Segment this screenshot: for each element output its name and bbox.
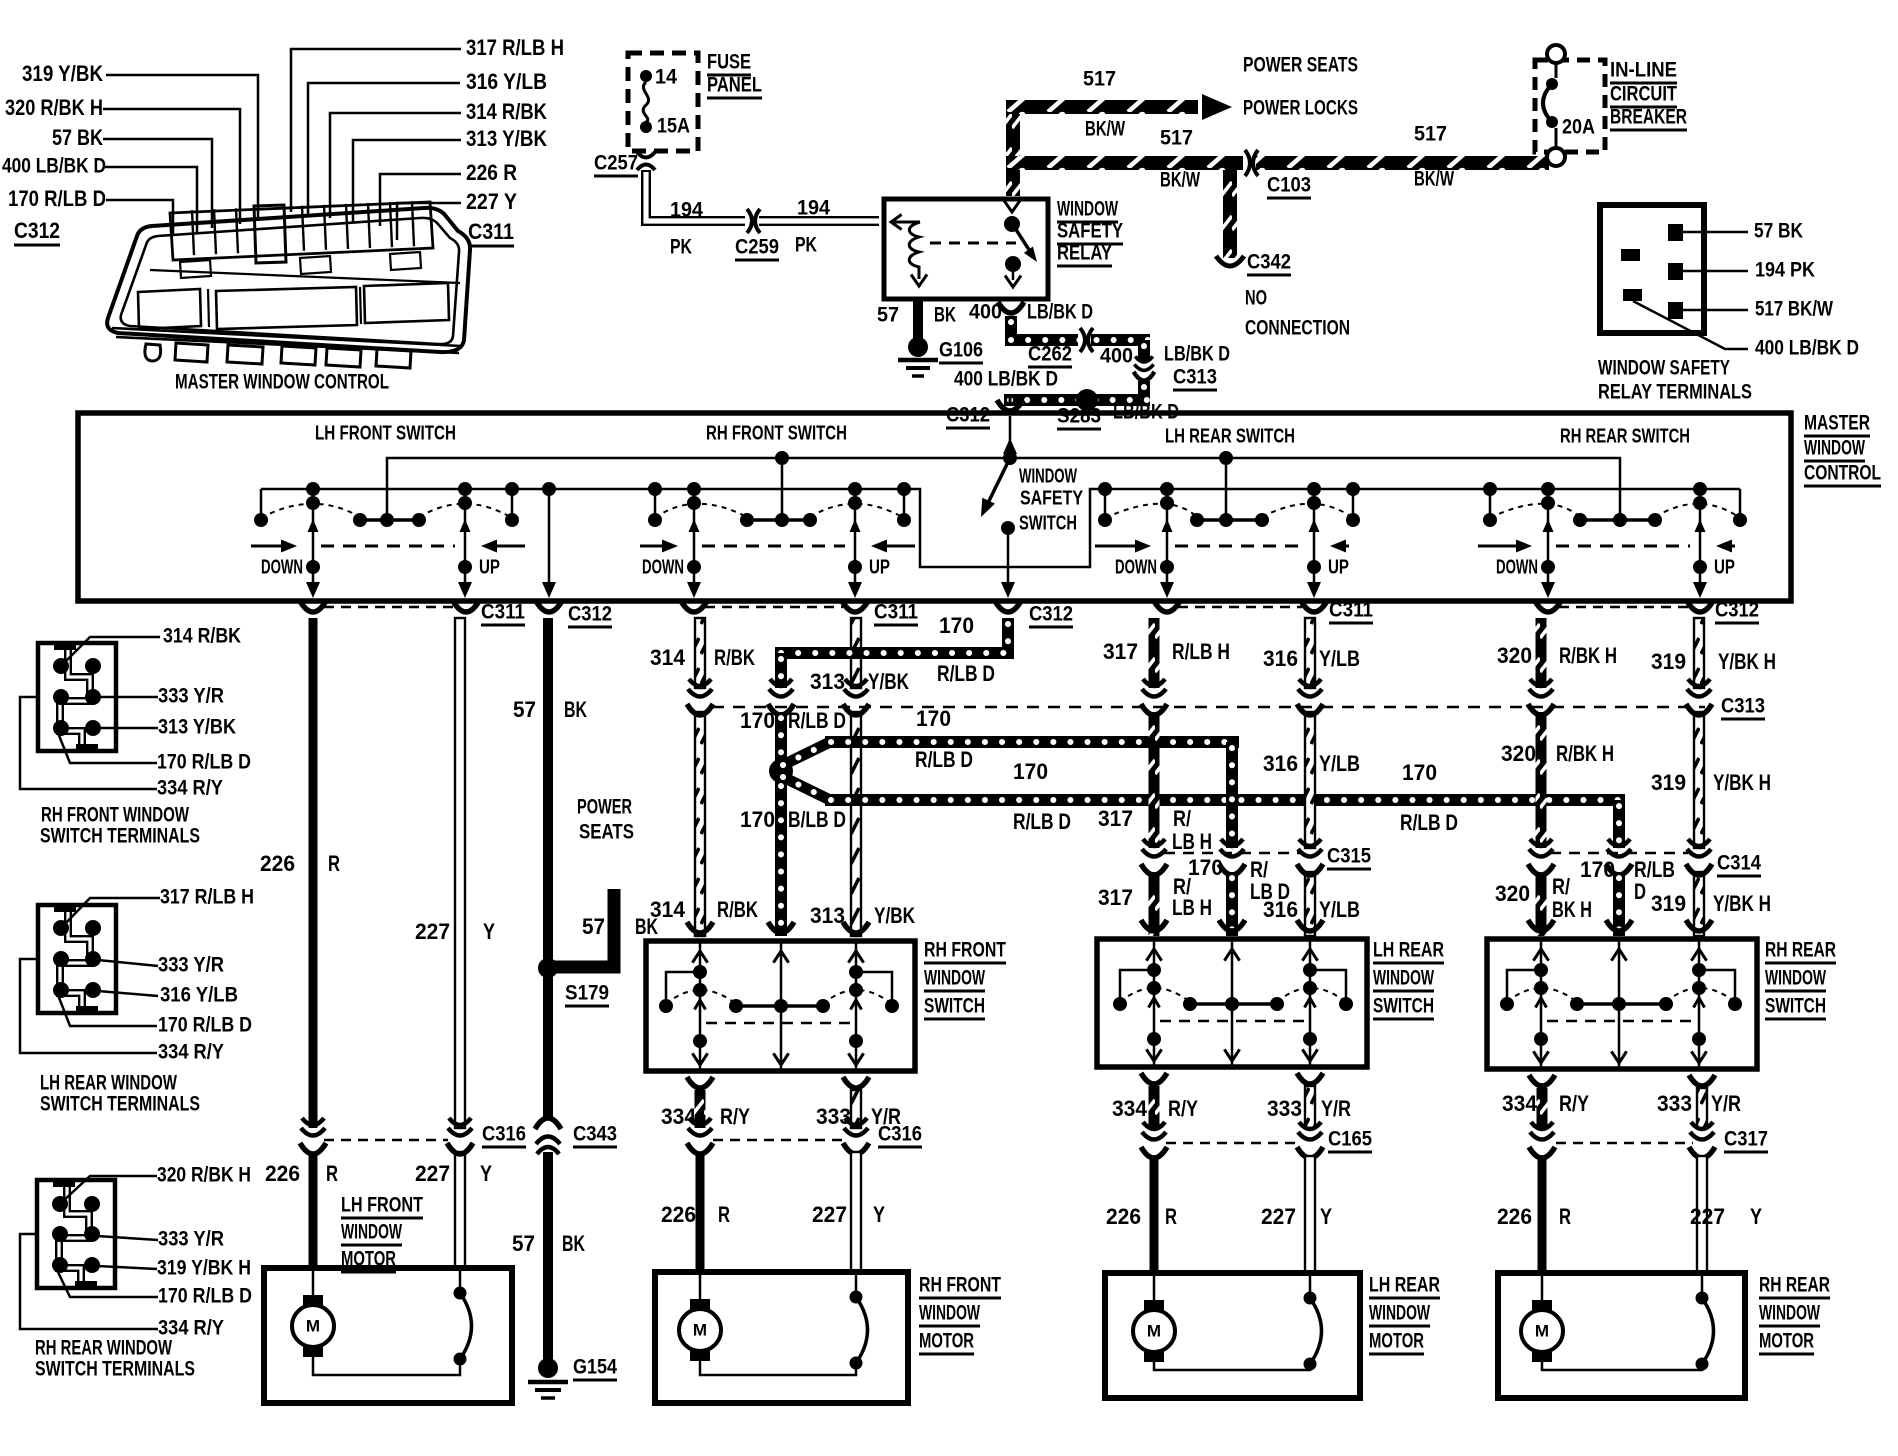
forks above RH front switch box <box>687 922 713 933</box>
svg-text:227: 227 <box>1690 1204 1725 1229</box>
wire 227 Y LH rear <box>1305 1156 1315 1273</box>
svg-text:M: M <box>1147 1321 1161 1340</box>
svg-text:194 PK: 194 PK <box>1755 258 1815 282</box>
svg-text:WINDOW: WINDOW <box>919 1301 981 1325</box>
svg-text:317 R/LB H: 317 R/LB H <box>160 885 254 909</box>
svg-text:170 R/LB D: 170 R/LB D <box>158 1013 252 1037</box>
wire 334 R/Y RH front <box>695 1090 706 1128</box>
svg-text:UP: UP <box>869 556 890 578</box>
wire 226 R RH front <box>696 1152 705 1272</box>
fuse 15A terminal <box>640 121 652 133</box>
svg-text:B/LB D: B/LB D <box>788 807 846 832</box>
wire 170 down to splice <box>775 712 787 762</box>
svg-text:SWITCH TERMINALS: SWITCH TERMINALS <box>40 824 200 848</box>
svg-text:SWITCH TERMINALS: SWITCH TERMINALS <box>40 1092 200 1116</box>
fork above master box <box>997 400 1023 411</box>
wire 57 BK to G106 <box>913 299 923 341</box>
wire 57 BK main <box>543 618 553 1120</box>
break C313 on 320 <box>1529 679 1553 697</box>
svg-text:RELAY TERMINALS: RELAY TERMINALS <box>1598 380 1752 404</box>
svg-text:57: 57 <box>877 303 899 327</box>
svg-text:R/LB D: R/LB D <box>937 661 995 686</box>
svg-text:C312: C312 <box>1029 602 1073 626</box>
break C313 on 319 <box>1687 679 1711 697</box>
wire 333 Y/R LH rear <box>1305 1086 1315 1128</box>
svg-text:400 LB/BK D: 400 LB/BK D <box>1755 336 1859 360</box>
wire 170 upper branch diagonal <box>783 743 828 765</box>
svg-text:PANEL: PANEL <box>707 73 762 97</box>
svg-text:UP: UP <box>1714 556 1735 578</box>
svg-text:R/BK: R/BK <box>714 645 756 670</box>
forks above LH rear switch box <box>1141 920 1167 931</box>
svg-text:317: 317 <box>1098 806 1133 831</box>
feed line across switches <box>387 458 1620 520</box>
dashed C316 link <box>324 1139 448 1142</box>
wire 319 mid <box>1694 712 1704 848</box>
svg-text:LH REAR: LH REAR <box>1373 938 1444 962</box>
svg-text:227: 227 <box>415 919 450 944</box>
wire 227 Y RH front <box>851 1152 861 1272</box>
svg-text:333: 333 <box>816 1104 851 1129</box>
svg-text:CONTROL: CONTROL <box>1804 461 1881 485</box>
svg-text:334 R/Y: 334 R/Y <box>157 776 223 800</box>
RH front window switch terminals <box>38 643 116 751</box>
forks below RH front switch <box>687 1077 713 1088</box>
svg-text:316: 316 <box>1263 897 1298 922</box>
svg-text:C313: C313 <box>1721 694 1765 718</box>
break C316-2 on 334 <box>688 1118 712 1136</box>
svg-text:57: 57 <box>513 697 536 722</box>
svg-text:333: 333 <box>1267 1096 1302 1121</box>
RH front switch unit <box>648 482 662 496</box>
dashed links below master box <box>324 606 454 609</box>
svg-text:DOWN: DOWN <box>1496 556 1538 578</box>
wire 227 Y LH front lower <box>455 1152 465 1268</box>
break C165 on 334 <box>1142 1122 1166 1140</box>
svg-text:C311: C311 <box>874 600 918 624</box>
svg-text:C316: C316 <box>482 1122 526 1146</box>
svg-text:333 Y/R: 333 Y/R <box>158 1227 224 1251</box>
svg-text:170: 170 <box>939 613 974 638</box>
break C316 on 226 <box>301 1118 325 1136</box>
svg-text:194: 194 <box>797 196 830 220</box>
svg-text:317: 317 <box>1103 639 1138 664</box>
svg-text:317 R/LB H: 317 R/LB H <box>466 35 564 60</box>
wire 317 lower <box>1149 872 1160 936</box>
svg-text:319: 319 <box>1651 891 1686 916</box>
wire 226 R LH front lower <box>309 1152 318 1268</box>
svg-text:WINDOW: WINDOW <box>1019 465 1078 487</box>
svg-text:DOWN: DOWN <box>1115 556 1157 578</box>
break C315 on 170 <box>1220 839 1244 857</box>
terminal pins left <box>1621 249 1640 261</box>
svg-text:POWER: POWER <box>577 795 632 819</box>
svg-text:SAFETY: SAFETY <box>1020 487 1083 509</box>
dashed C316-2 <box>713 1139 845 1142</box>
svg-text:R/LB D: R/LB D <box>1013 809 1071 834</box>
svg-text:227: 227 <box>415 1161 450 1186</box>
svg-text:226: 226 <box>661 1202 696 1227</box>
svg-text:C311: C311 <box>1329 598 1373 622</box>
wire 170 below splice <box>775 780 787 936</box>
wire 170 branch down at 1233 <box>1226 742 1238 848</box>
svg-text:CONNECTION: CONNECTION <box>1245 316 1350 340</box>
svg-text:SWITCH: SWITCH <box>924 994 985 1018</box>
svg-text:170: 170 <box>1402 760 1437 785</box>
connector C259 break <box>745 212 759 230</box>
svg-text:R/BK H: R/BK H <box>1556 741 1614 766</box>
in-line circuit breaker box <box>1535 60 1605 152</box>
relay coil arrow <box>911 275 927 287</box>
svg-text:IN-LINE: IN-LINE <box>1610 58 1677 82</box>
svg-text:170 R/LB D: 170 R/LB D <box>8 186 106 211</box>
wire 170 into LH rear switch <box>1226 872 1238 936</box>
svg-text:226: 226 <box>1497 1204 1532 1229</box>
RH front window switch box <box>646 941 915 1071</box>
svg-text:R/BK H: R/BK H <box>1559 643 1617 668</box>
svg-text:Y/BK H: Y/BK H <box>1718 649 1776 674</box>
svg-text:R: R <box>1559 1204 1571 1229</box>
svg-text:C314: C314 <box>1717 851 1761 875</box>
wire 319 lower <box>1694 872 1704 936</box>
svg-text:MOTOR: MOTOR <box>341 1247 396 1271</box>
wire 517 vertical <box>1006 112 1020 196</box>
svg-text:314 R/BK: 314 R/BK <box>466 99 548 124</box>
svg-text:15A: 15A <box>657 114 690 138</box>
svg-text:C313: C313 <box>1173 365 1217 389</box>
svg-text:C316: C316 <box>878 1122 922 1146</box>
svg-text:Y/BK: Y/BK <box>874 903 916 928</box>
svg-text:320: 320 <box>1495 881 1530 906</box>
svg-text:BK H: BK H <box>1552 897 1592 922</box>
relay coil feed arrow <box>892 221 920 224</box>
svg-text:319: 319 <box>1651 770 1686 795</box>
wire 226 R RH rear <box>1538 1156 1547 1273</box>
breaker top terminal <box>1547 45 1565 63</box>
svg-text:WINDOW: WINDOW <box>1373 966 1435 990</box>
wire 313 Y/BK lower <box>851 712 861 936</box>
svg-text:400 LB/BK D: 400 LB/BK D <box>954 367 1058 391</box>
svg-text:MOTOR: MOTOR <box>1759 1329 1814 1353</box>
svg-text:S283: S283 <box>1057 404 1101 428</box>
svg-text:226 R: 226 R <box>466 160 517 185</box>
svg-text:NO: NO <box>1245 286 1267 310</box>
svg-text:400 LB/BK D: 400 LB/BK D <box>2 154 106 178</box>
svg-text:WINDOW: WINDOW <box>1765 966 1827 990</box>
svg-text:R/Y: R/Y <box>1168 1096 1198 1121</box>
wire 400 below C313 <box>1138 381 1150 394</box>
forks below RH rear switch <box>1529 1075 1555 1086</box>
svg-text:DOWN: DOWN <box>261 556 303 578</box>
svg-text:170: 170 <box>740 807 775 832</box>
svg-text:POWER SEATS: POWER SEATS <box>1243 53 1358 77</box>
svg-text:57 BK: 57 BK <box>1754 219 1803 243</box>
break C316-2 on 333 <box>844 1118 868 1136</box>
svg-text:R: R <box>328 851 340 876</box>
forks above RH rear switch box <box>1528 920 1554 931</box>
svg-text:170 R/LB D: 170 R/LB D <box>157 750 251 774</box>
break C313 on 313 <box>844 679 868 697</box>
svg-text:170 R/LB D: 170 R/LB D <box>158 1284 252 1308</box>
dashed C317 <box>1556 1142 1693 1145</box>
svg-text:C165: C165 <box>1328 1127 1372 1151</box>
break C314 on 170 <box>1607 839 1631 857</box>
svg-text:334 R/Y: 334 R/Y <box>158 1316 224 1340</box>
wire 170 branch down at 1617 <box>1613 800 1625 848</box>
svg-text:57 BK: 57 BK <box>52 125 104 150</box>
svg-text:Y/LB: Y/LB <box>1319 897 1360 922</box>
svg-text:517: 517 <box>1083 67 1116 91</box>
connector C103 break <box>1243 153 1256 173</box>
svg-text:C103: C103 <box>1267 173 1311 197</box>
RH rear switch unit <box>1483 482 1497 496</box>
connector C262 break <box>1078 331 1091 349</box>
LH rear switch unit <box>1098 482 1112 496</box>
power seats branch elbow <box>548 889 614 967</box>
master window control illustration <box>107 208 470 352</box>
svg-text:C315: C315 <box>1327 844 1371 868</box>
break on 170 <box>769 679 793 697</box>
wire 333 Y/R RH rear <box>1697 1088 1707 1128</box>
svg-text:M: M <box>306 1316 320 1335</box>
LH rear window switch terminals <box>38 905 116 1013</box>
breaker bottom terminal <box>1547 148 1565 166</box>
wire 170 into RH rear switch <box>1613 872 1625 936</box>
dashed C165 <box>1166 1142 1298 1145</box>
svg-text:C311: C311 <box>468 219 514 244</box>
window safety relay terminals box <box>1600 205 1704 333</box>
svg-text:SWITCH: SWITCH <box>1765 994 1826 1018</box>
break C313 on 314 <box>688 679 712 697</box>
svg-text:517 BK/W: 517 BK/W <box>1755 297 1834 321</box>
break C343 on 57 <box>535 1118 561 1129</box>
wire 314 R/BK lower <box>695 712 705 936</box>
wire 517 C342 stub <box>1223 170 1237 258</box>
svg-text:320: 320 <box>1501 741 1536 766</box>
svg-text:LB/BK D: LB/BK D <box>1027 300 1093 324</box>
svg-text:D: D <box>1634 879 1646 904</box>
svg-text:334: 334 <box>1112 1096 1147 1121</box>
svg-text:517: 517 <box>1160 126 1193 150</box>
svg-text:RH REAR SWITCH: RH REAR SWITCH <box>1560 425 1690 447</box>
svg-text:C257: C257 <box>594 151 638 175</box>
svg-text:C343: C343 <box>573 1122 617 1146</box>
svg-text:319 Y/BK H: 319 Y/BK H <box>157 1256 251 1280</box>
svg-text:226: 226 <box>260 851 295 876</box>
svg-text:226: 226 <box>1106 1204 1141 1229</box>
svg-text:333: 333 <box>1657 1091 1692 1116</box>
window safety switch <box>1009 416 1012 458</box>
RH front window motor box <box>655 1272 908 1403</box>
wire 320 R/BK H upper <box>1536 618 1547 688</box>
wire 316 mid <box>1305 712 1315 848</box>
svg-text:C312: C312 <box>14 218 60 243</box>
svg-text:R/: R/ <box>1173 806 1192 831</box>
svg-text:333 Y/R: 333 Y/R <box>158 684 224 708</box>
svg-text:319 Y/BK: 319 Y/BK <box>22 61 104 86</box>
57 BK feed in box <box>542 482 556 496</box>
svg-text:R/Y: R/Y <box>720 1104 750 1129</box>
wire 170 lower branch diagonal <box>783 777 828 799</box>
svg-text:LH FRONT SWITCH: LH FRONT SWITCH <box>315 422 456 444</box>
svg-text:SEATS: SEATS <box>579 820 634 844</box>
svg-text:CIRCUIT: CIRCUIT <box>1610 82 1677 106</box>
svg-text:FUSE: FUSE <box>707 50 751 74</box>
relay contact dots <box>1004 216 1020 232</box>
svg-text:C342: C342 <box>1247 250 1291 274</box>
svg-text:227: 227 <box>812 1202 847 1227</box>
wire 517 power feed run <box>1006 100 1198 114</box>
svg-text:R: R <box>326 1161 338 1186</box>
feed drop RH front <box>781 458 784 520</box>
relay output stem <box>1012 268 1015 280</box>
splice S179 <box>538 958 558 978</box>
svg-text:14: 14 <box>655 65 677 89</box>
wire 314 R/BK upper <box>695 618 705 688</box>
wire 316 Y/LB upper <box>1305 618 1315 688</box>
breaker element <box>1555 63 1558 78</box>
svg-text:C311: C311 <box>481 600 525 624</box>
RH rear window switch terminals <box>37 1180 115 1288</box>
wire 400 to S283 <box>1004 394 1150 406</box>
svg-text:Y: Y <box>480 1161 492 1186</box>
svg-text:MASTER: MASTER <box>1804 411 1870 435</box>
svg-text:RELAY: RELAY <box>1057 241 1112 265</box>
svg-text:LB/BK D: LB/BK D <box>1164 342 1230 366</box>
svg-text:333 Y/R: 333 Y/R <box>158 953 224 977</box>
svg-text:517: 517 <box>1414 122 1447 146</box>
svg-text:G154: G154 <box>573 1355 617 1379</box>
fork below relay <box>998 302 1024 313</box>
leader lines - right labels <box>291 49 461 212</box>
svg-text:Y: Y <box>873 1202 885 1227</box>
svg-text:SAFETY: SAFETY <box>1057 219 1123 243</box>
break C314 on 319 <box>1687 839 1711 857</box>
connector C313 break <box>1134 356 1153 370</box>
wire 317 R/LB H upper <box>1149 618 1160 688</box>
svg-text:BK/W: BK/W <box>1414 167 1455 191</box>
dashed connector line C313 <box>712 706 1705 709</box>
svg-text:C259: C259 <box>735 235 779 259</box>
master window control box <box>78 413 1791 601</box>
break C317 on 334 <box>1530 1122 1554 1140</box>
svg-text:Y/BK H: Y/BK H <box>1713 770 1771 795</box>
svg-text:314: 314 <box>650 897 685 922</box>
wire 170 safety output down <box>1002 618 1014 647</box>
svg-text:SWITCH TERMINALS: SWITCH TERMINALS <box>35 1357 195 1381</box>
svg-text:G106: G106 <box>939 338 983 362</box>
svg-text:320 R/BK H: 320 R/BK H <box>157 1163 251 1187</box>
LH front switch unit <box>260 489 263 520</box>
wire 313 Y/BK upper <box>851 618 861 688</box>
break C316 on 227 <box>448 1118 472 1136</box>
break C317 on 333 <box>1690 1122 1714 1140</box>
terminal leader 194 PK <box>1683 270 1748 273</box>
window safety relay box <box>884 199 1048 299</box>
svg-text:RH REAR: RH REAR <box>1765 938 1836 962</box>
svg-text:313: 313 <box>810 669 845 694</box>
svg-text:316: 316 <box>1263 751 1298 776</box>
svg-text:BK: BK <box>562 1231 586 1256</box>
break at C257 <box>637 152 655 158</box>
svg-text:R/BK: R/BK <box>717 897 759 922</box>
wire 227 Y RH rear <box>1697 1156 1707 1273</box>
feed drop LH rear <box>1225 458 1228 520</box>
wire 170 lower branch run <box>825 794 1625 806</box>
wire 400 down to C313 <box>1138 340 1150 362</box>
svg-text:SWITCH: SWITCH <box>1373 994 1434 1018</box>
svg-text:170: 170 <box>916 706 951 731</box>
svg-text:M: M <box>1535 1321 1549 1340</box>
leader lines - left labels <box>106 75 258 220</box>
wire 334 R/Y LH rear <box>1149 1086 1160 1128</box>
LH rear window motor box <box>1105 1273 1360 1398</box>
svg-text:SWITCH: SWITCH <box>1019 512 1077 534</box>
forks below LH rear switch <box>1141 1073 1167 1084</box>
wire 319 Y/BK H upper <box>1694 618 1704 688</box>
wire 317 mid <box>1149 712 1160 848</box>
svg-text:WINDOW: WINDOW <box>1804 436 1866 460</box>
svg-text:170: 170 <box>1188 855 1223 880</box>
svg-text:R/LB D: R/LB D <box>915 747 973 772</box>
svg-text:BK: BK <box>934 303 956 327</box>
svg-text:400: 400 <box>1100 344 1133 368</box>
svg-text:BK/W: BK/W <box>1160 168 1201 192</box>
svg-text:R/LB D: R/LB D <box>1400 810 1458 835</box>
LH front window motor box <box>264 1268 512 1403</box>
ground G106 <box>908 337 928 357</box>
terminal pins right <box>1668 224 1683 241</box>
svg-text:Y/BK H: Y/BK H <box>1713 891 1771 916</box>
relay top entry arrow <box>1003 200 1020 212</box>
svg-text:317: 317 <box>1098 885 1133 910</box>
svg-text:316 Y/LB: 316 Y/LB <box>160 983 238 1007</box>
svg-text:170: 170 <box>1013 759 1048 784</box>
svg-text:227 Y: 227 Y <box>466 189 517 214</box>
svg-text:WINDOW SAFETY: WINDOW SAFETY <box>1598 356 1730 380</box>
svg-text:C317: C317 <box>1724 1127 1768 1151</box>
terminal leader 400 LB/BK D <box>1633 301 1748 349</box>
svg-text:Y: Y <box>483 919 495 944</box>
svg-text:WINDOW: WINDOW <box>924 966 986 990</box>
forks below master box <box>300 601 326 612</box>
bus line front section <box>261 489 1740 567</box>
svg-text:DOWN: DOWN <box>642 556 684 578</box>
svg-text:320: 320 <box>1497 643 1532 668</box>
svg-text:UP: UP <box>1328 556 1349 578</box>
wire 170 down at 781 upper <box>775 653 787 688</box>
svg-text:LB/BK D: LB/BK D <box>1113 400 1179 424</box>
break C313 on 317 <box>1142 679 1166 697</box>
power arrow <box>1202 94 1232 120</box>
svg-text:R: R <box>718 1202 730 1227</box>
svg-text:313 Y/BK: 313 Y/BK <box>158 715 236 739</box>
svg-text:MASTER WINDOW CONTROL: MASTER WINDOW CONTROL <box>175 370 389 394</box>
svg-text:RH REAR: RH REAR <box>1759 1273 1830 1297</box>
svg-text:PK: PK <box>795 233 817 257</box>
dashed connector C314 <box>1550 852 1688 855</box>
svg-text:334 R/Y: 334 R/Y <box>158 1040 224 1064</box>
svg-text:313: 313 <box>810 903 845 928</box>
svg-text:C312: C312 <box>568 602 612 626</box>
break C315 on 317 <box>1142 839 1166 857</box>
break C313 on 316 <box>1298 679 1322 697</box>
svg-text:Y/LB: Y/LB <box>1319 646 1360 671</box>
svg-text:LH FRONT: LH FRONT <box>341 1193 423 1217</box>
svg-text:BK: BK <box>564 697 588 722</box>
svg-text:194: 194 <box>670 198 703 222</box>
svg-text:WINDOW: WINDOW <box>1057 197 1119 221</box>
